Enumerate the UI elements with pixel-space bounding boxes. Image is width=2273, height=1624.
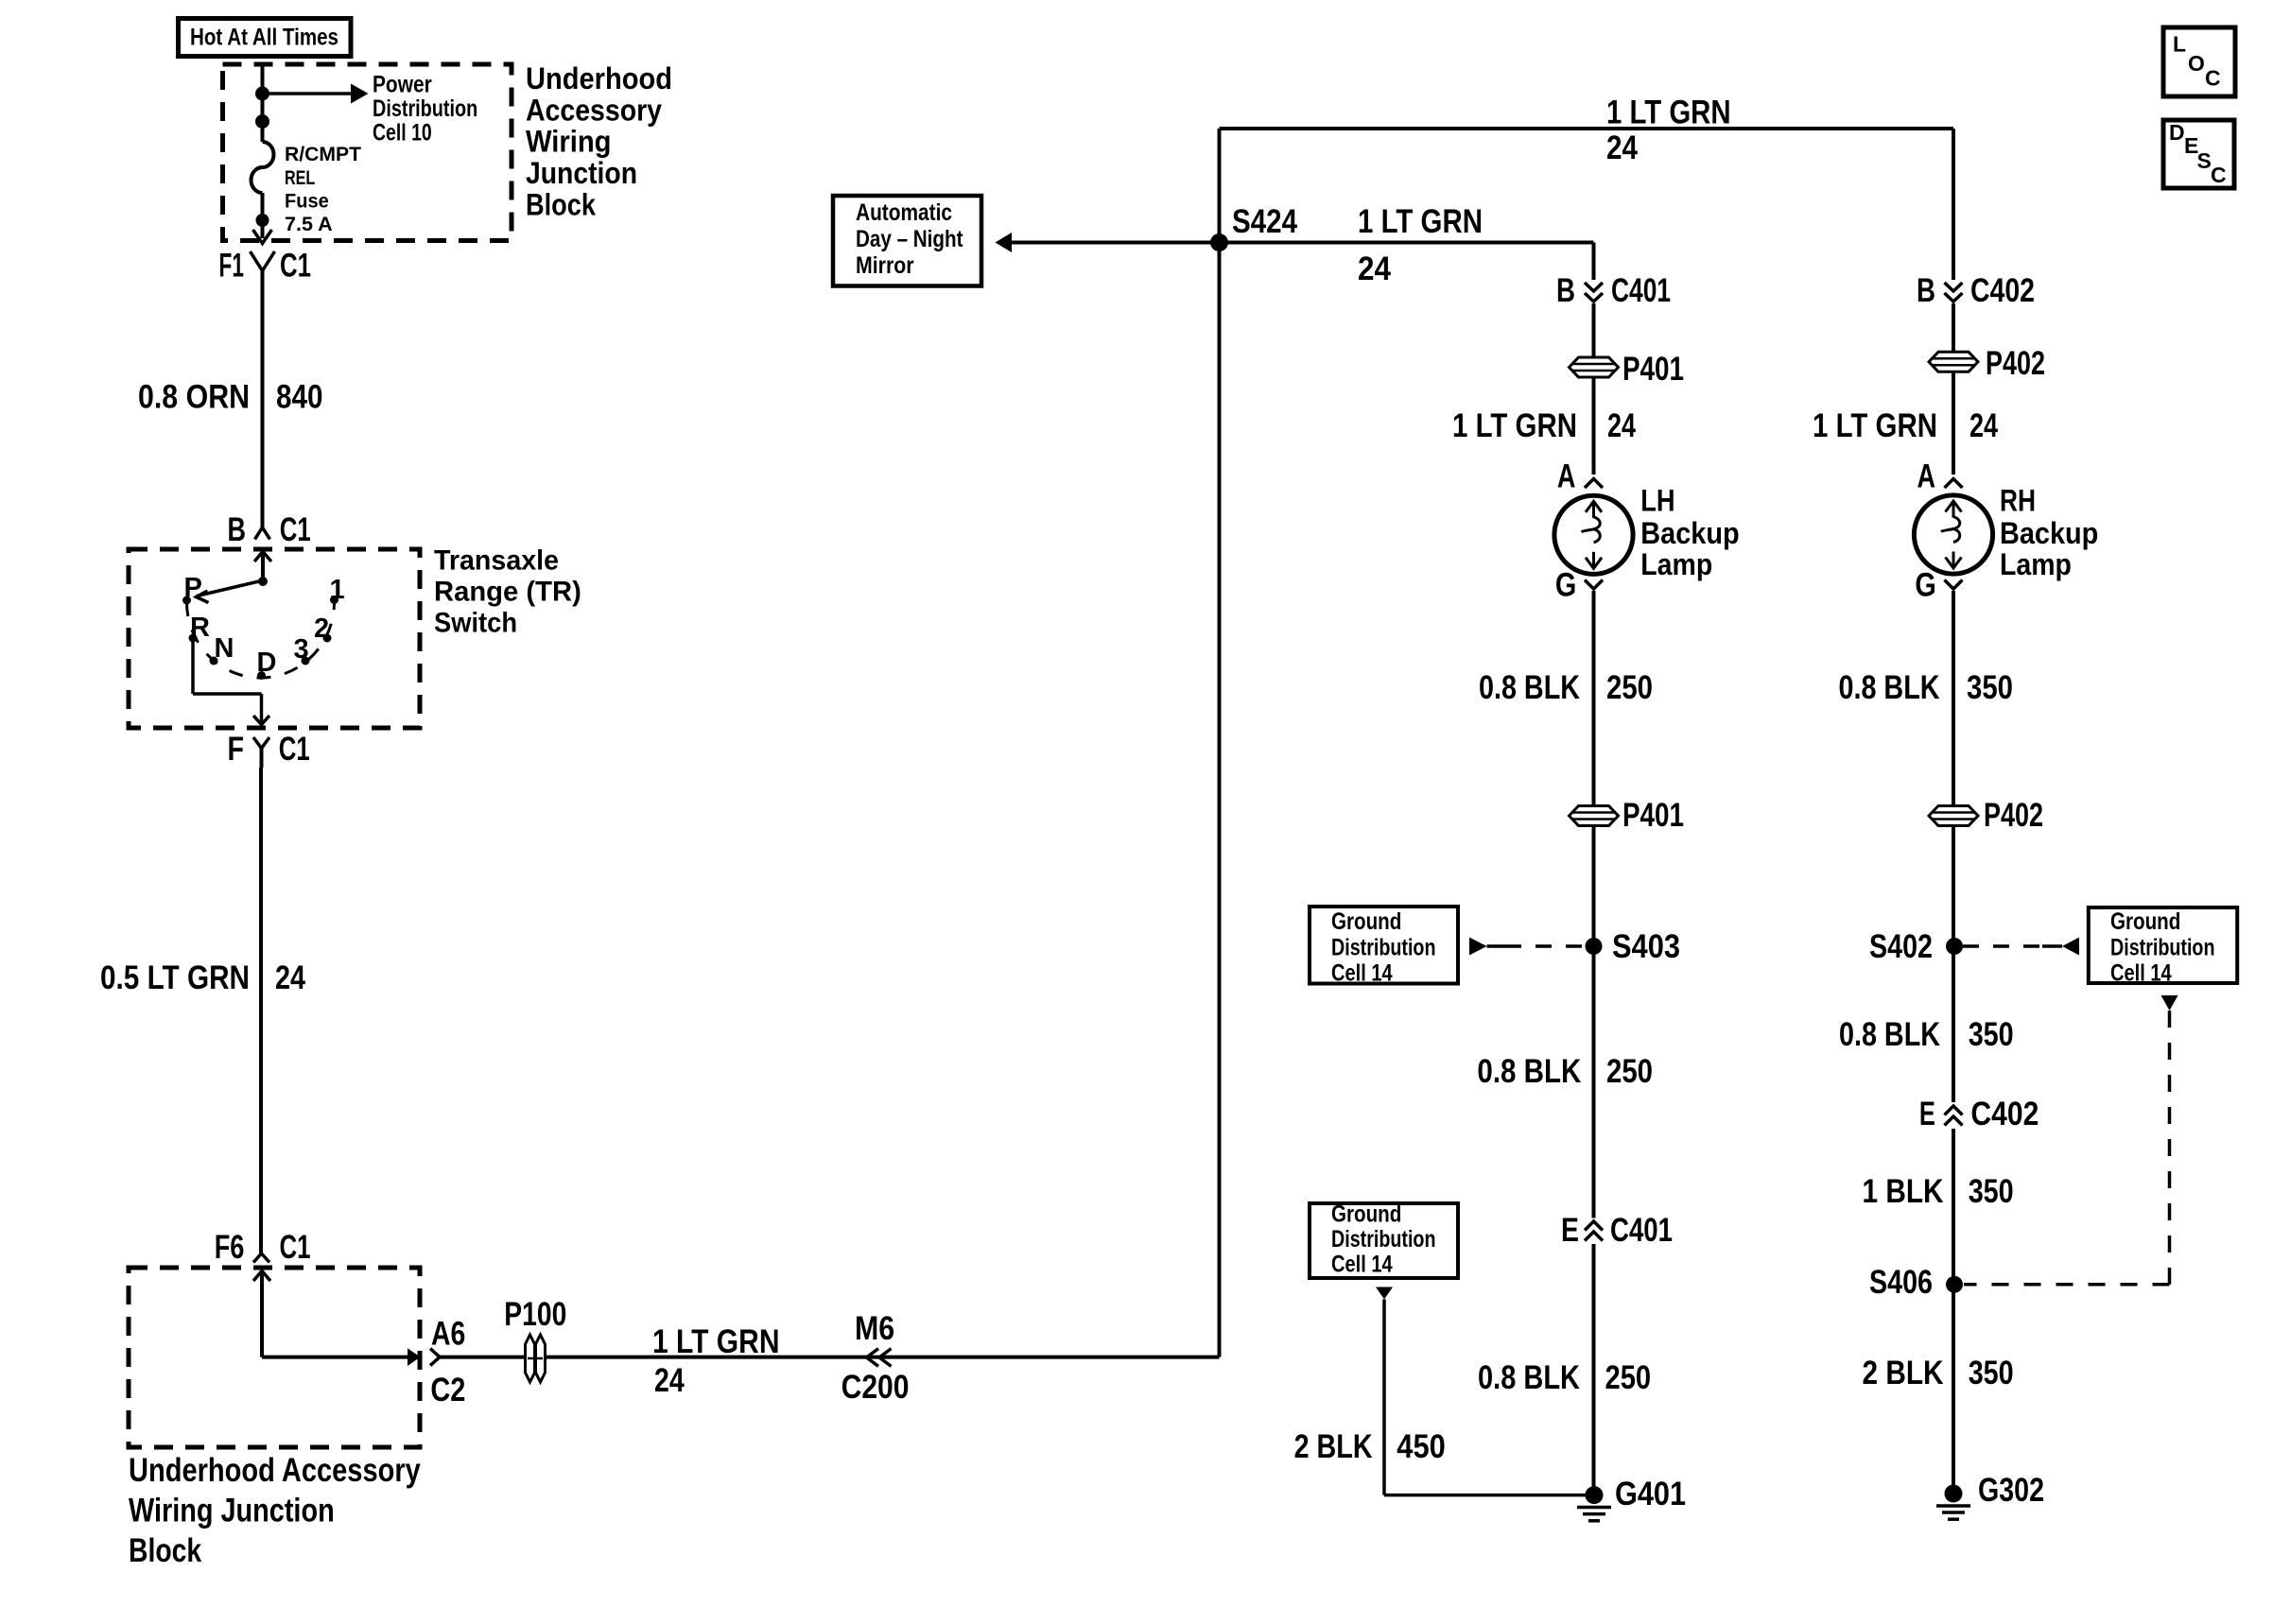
svg-text:F6: F6 (215, 1229, 245, 1266)
svg-text:LH: LH (1640, 484, 1674, 518)
svg-text:A: A (1557, 458, 1576, 495)
svg-text:RH: RH (2000, 484, 2036, 518)
svg-text:0.8 BLK: 0.8 BLK (1839, 1016, 1940, 1053)
svg-text:C402: C402 (1970, 272, 2035, 309)
svg-text:B: B (1556, 272, 1575, 309)
svg-text:E: E (1561, 1212, 1579, 1249)
svg-text:D: D (2169, 120, 2185, 145)
svg-text:Ground: Ground (2110, 908, 2180, 935)
svg-text:Block: Block (129, 1532, 202, 1569)
svg-text:24: 24 (1969, 407, 1998, 444)
svg-text:P: P (184, 573, 202, 603)
svg-text:P402: P402 (1984, 797, 2043, 834)
svg-text:Cell 14: Cell 14 (1331, 960, 1393, 987)
svg-text:REL: REL (285, 167, 315, 189)
svg-text:250: 250 (1606, 1053, 1653, 1090)
svg-text:Fuse: Fuse (285, 191, 329, 213)
svg-text:O: O (2188, 51, 2205, 76)
svg-text:S: S (2197, 148, 2212, 173)
svg-text:S424: S424 (1232, 203, 1297, 240)
svg-text:Distribution: Distribution (1331, 1226, 1436, 1253)
svg-text:L: L (2173, 32, 2186, 57)
svg-text:24: 24 (1606, 130, 1638, 166)
svg-text:Accessory: Accessory (526, 94, 662, 128)
svg-text:E: E (1919, 1096, 1935, 1132)
svg-text:2 BLK: 2 BLK (1294, 1428, 1373, 1465)
svg-text:Range (TR): Range (TR) (434, 577, 581, 608)
svg-text:250: 250 (1606, 669, 1653, 706)
svg-text:24: 24 (654, 1362, 685, 1399)
svg-text:Cell 10: Cell 10 (373, 120, 432, 147)
svg-text:0.8 ORN: 0.8 ORN (138, 379, 250, 416)
svg-text:A: A (1917, 458, 1936, 495)
svg-text:350: 350 (1969, 1016, 2014, 1053)
svg-text:Distribution: Distribution (1331, 934, 1436, 960)
svg-text:1 BLK: 1 BLK (1863, 1173, 1944, 1210)
svg-text:24: 24 (275, 959, 305, 996)
svg-text:0.8 BLK: 0.8 BLK (1839, 669, 1940, 706)
svg-text:1 LT GRN: 1 LT GRN (1358, 203, 1483, 240)
svg-text:C401: C401 (1610, 1212, 1673, 1249)
svg-text:G302: G302 (1978, 1472, 2044, 1509)
svg-text:0.8 BLK: 0.8 BLK (1477, 1053, 1581, 1090)
svg-text:Junction: Junction (526, 156, 637, 190)
svg-text:N: N (215, 633, 234, 664)
svg-text:Underhood Accessory: Underhood Accessory (129, 1452, 421, 1489)
svg-text:Ground: Ground (1331, 908, 1401, 935)
svg-text:C1: C1 (279, 731, 310, 768)
svg-text:Automatic: Automatic (856, 199, 952, 226)
svg-text:C: C (2205, 66, 2221, 91)
svg-text:1 LT GRN: 1 LT GRN (1606, 95, 1731, 131)
svg-text:C1: C1 (280, 247, 311, 284)
svg-text:Block: Block (526, 187, 596, 221)
svg-text:C401: C401 (1611, 272, 1671, 309)
svg-text:Cell 14: Cell 14 (1331, 1252, 1393, 1278)
svg-text:2: 2 (314, 613, 329, 644)
svg-text:C402: C402 (1970, 1096, 2039, 1132)
svg-text:Lamp: Lamp (2000, 547, 2072, 581)
svg-text:Wiring: Wiring (526, 125, 612, 159)
svg-text:C1: C1 (280, 511, 311, 548)
svg-text:1 LT GRN: 1 LT GRN (652, 1323, 780, 1360)
svg-text:1 LT GRN: 1 LT GRN (1813, 407, 1937, 444)
svg-text:Transaxle: Transaxle (434, 545, 559, 577)
svg-text:450: 450 (1397, 1428, 1446, 1465)
svg-text:350: 350 (1969, 1173, 2014, 1210)
svg-text:B: B (1917, 272, 1935, 309)
svg-text:G: G (1915, 566, 1935, 603)
svg-text:Wiring Junction: Wiring Junction (129, 1493, 335, 1529)
svg-text:C2: C2 (430, 1372, 465, 1408)
svg-text:Day – Night: Day – Night (856, 226, 963, 252)
svg-text:C: C (2211, 163, 2227, 187)
svg-text:A6: A6 (431, 1315, 465, 1352)
svg-text:350: 350 (1969, 1355, 2014, 1391)
svg-text:250: 250 (1605, 1359, 1652, 1396)
svg-text:C200: C200 (842, 1369, 910, 1406)
svg-text:Mirror: Mirror (856, 252, 914, 279)
svg-text:Backup: Backup (1640, 516, 1739, 550)
svg-text:R: R (190, 613, 210, 643)
svg-text:S403: S403 (1612, 928, 1680, 965)
svg-text:Backup: Backup (2000, 516, 2098, 550)
svg-text:2 BLK: 2 BLK (1863, 1355, 1944, 1391)
svg-text:Underhood: Underhood (526, 61, 672, 95)
svg-text:R/CMPT: R/CMPT (285, 144, 361, 165)
svg-text:3: 3 (294, 634, 309, 665)
svg-text:C1: C1 (280, 1229, 311, 1266)
svg-text:Distribution: Distribution (373, 95, 477, 122)
svg-text:G: G (1555, 566, 1576, 603)
svg-text:Ground: Ground (1331, 1201, 1401, 1228)
svg-text:P401: P401 (1622, 797, 1684, 834)
svg-text:G401: G401 (1615, 1476, 1686, 1512)
svg-text:1: 1 (330, 575, 345, 605)
svg-text:1 LT GRN: 1 LT GRN (1452, 407, 1577, 444)
svg-text:Cell 14: Cell 14 (2110, 960, 2172, 987)
svg-text:0.8 BLK: 0.8 BLK (1478, 1359, 1580, 1396)
svg-text:M6: M6 (855, 1310, 894, 1347)
svg-text:24: 24 (1358, 251, 1391, 287)
svg-text:24: 24 (1607, 407, 1636, 444)
svg-text:840: 840 (276, 379, 323, 416)
svg-text:Switch: Switch (434, 608, 517, 639)
svg-text:Distribution: Distribution (2110, 934, 2215, 960)
svg-text:350: 350 (1967, 669, 2013, 706)
svg-text:D: D (257, 648, 277, 678)
svg-text:F: F (228, 731, 245, 768)
svg-text:S406: S406 (1869, 1264, 1933, 1301)
svg-text:Power: Power (373, 71, 432, 97)
svg-text:0.8 BLK: 0.8 BLK (1479, 669, 1580, 706)
svg-text:Hot At All Times: Hot At All Times (190, 25, 338, 51)
svg-text:0.5 LT GRN: 0.5 LT GRN (100, 959, 250, 996)
svg-text:S402: S402 (1869, 928, 1933, 965)
svg-text:P401: P401 (1622, 351, 1684, 388)
svg-text:P100: P100 (504, 1296, 566, 1333)
svg-text:F1: F1 (219, 247, 244, 284)
svg-text:P402: P402 (1986, 345, 2045, 382)
svg-text:Lamp: Lamp (1640, 547, 1712, 581)
svg-text:B: B (228, 511, 247, 548)
svg-text:7.5 A: 7.5 A (285, 214, 333, 235)
